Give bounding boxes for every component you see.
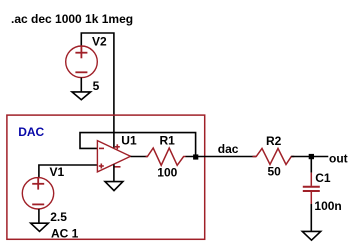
svg-text:V2: V2 bbox=[92, 34, 107, 48]
wire V2 top to op-amp V+ pin bbox=[81, 33, 114, 148]
svg-text:dac: dac bbox=[218, 142, 239, 156]
capacitor C1 bbox=[303, 173, 320, 204]
resistor R1 bbox=[146, 148, 186, 165]
wire op-amp output to R1 bbox=[131, 156, 148, 158]
svg-text:100n: 100n bbox=[314, 199, 341, 213]
wire V1 top to op-amp noninverting input bbox=[39, 165, 98, 178]
svg-text:AC 1: AC 1 bbox=[51, 226, 79, 240]
svg-text:out: out bbox=[329, 151, 348, 165]
wire V1 bottom to ground bbox=[38, 209, 40, 223]
ground (C1) bbox=[302, 231, 320, 240]
svg-text:5: 5 bbox=[93, 79, 100, 93]
svg-text:100: 100 bbox=[157, 165, 177, 179]
svg-text:.ac dec 1000 1k 1meg: .ac dec 1000 1k 1meg bbox=[11, 12, 133, 26]
wire V2 bottom to ground bbox=[80, 78, 82, 92]
voltage source V1 bbox=[22, 178, 53, 209]
wire op-amp V- pin to ground bbox=[113, 164, 115, 181]
svg-text:V1: V1 bbox=[50, 165, 65, 179]
svg-text:R2: R2 bbox=[266, 134, 282, 148]
voltage source V2 bbox=[66, 46, 98, 78]
resistor R2 bbox=[253, 148, 295, 164]
junction at out node bbox=[309, 154, 314, 159]
svg-text:DAC: DAC bbox=[18, 125, 44, 139]
wire R1 to dac node bbox=[186, 156, 257, 158]
wire out node down to C1 bbox=[310, 157, 312, 173]
svg-text:U1: U1 bbox=[121, 133, 137, 147]
junction at R1 output bbox=[193, 154, 198, 159]
wire feedback loop from inverting input to R1 output node bbox=[80, 133, 196, 155]
wire junction to out label bbox=[311, 156, 328, 158]
op-amp U1 bbox=[97, 141, 130, 172]
ground (V1) bbox=[31, 223, 49, 231]
svg-text:C1: C1 bbox=[315, 171, 331, 185]
wire R2 to out node bbox=[291, 156, 311, 158]
svg-text:50: 50 bbox=[268, 165, 282, 179]
wire C1 bottom to ground bbox=[310, 204, 312, 231]
svg-text:2.5: 2.5 bbox=[50, 210, 67, 224]
svg-text:R1: R1 bbox=[160, 134, 176, 148]
DAC subcircuit box bbox=[7, 115, 205, 239]
ground (op-amp) bbox=[105, 182, 123, 191]
ground (V2) bbox=[72, 92, 91, 100]
